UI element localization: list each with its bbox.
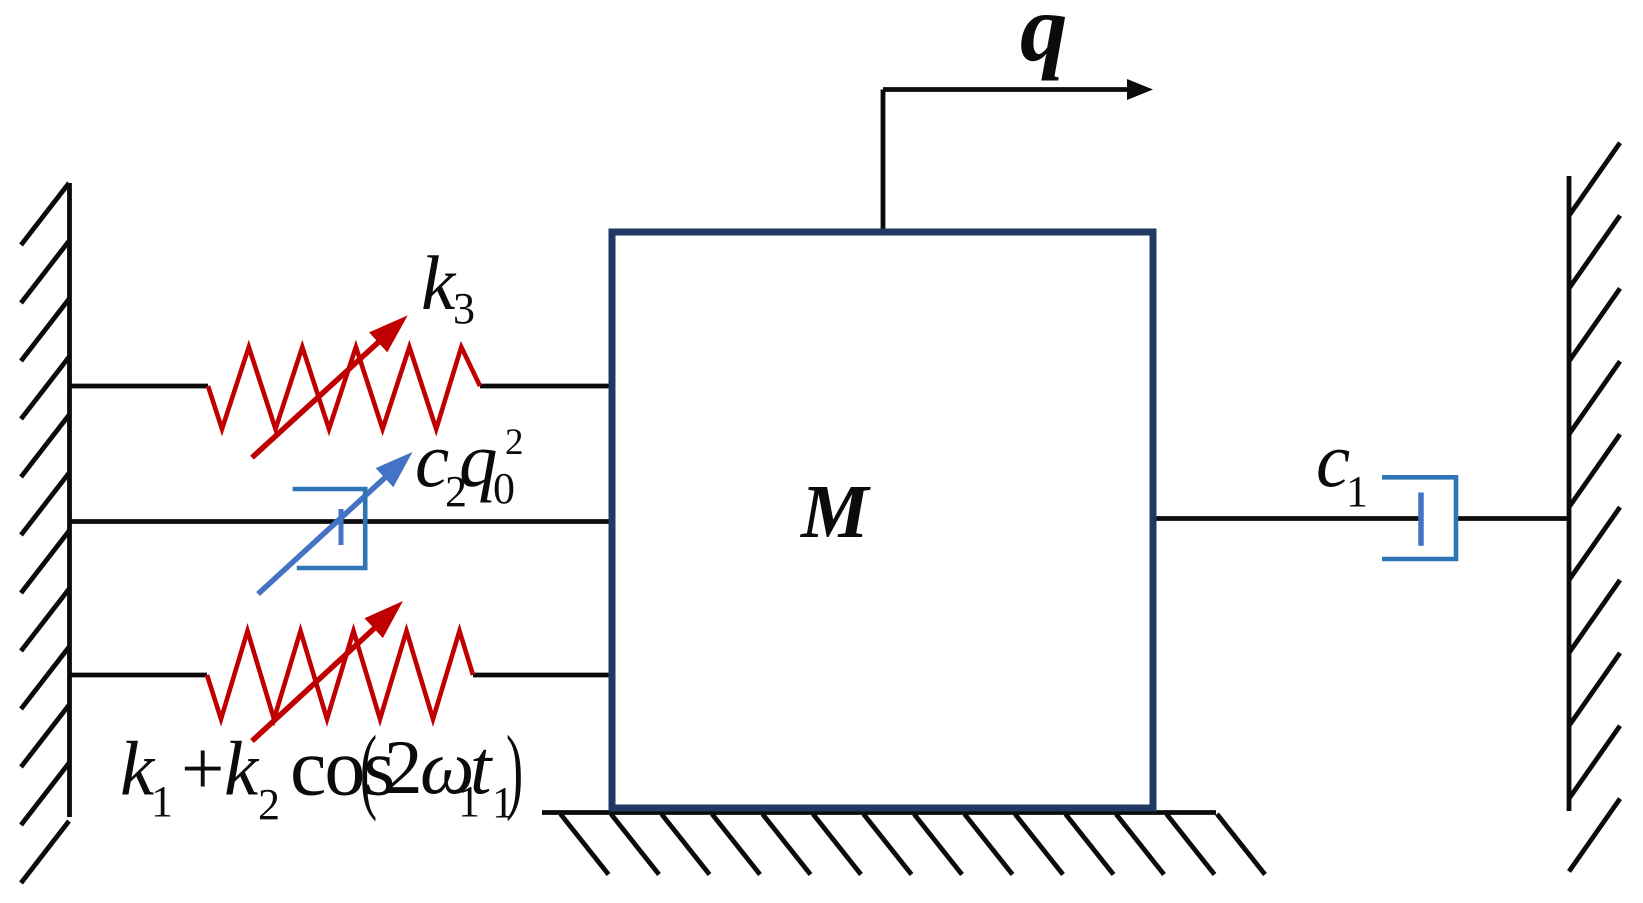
svg-text:): ) <box>506 716 523 822</box>
svg-text:q: q <box>459 417 498 503</box>
svg-text:2: 2 <box>505 422 524 463</box>
svg-text:(: ( <box>360 716 377 822</box>
svg-text:+: + <box>181 726 224 812</box>
svg-text:t: t <box>470 724 493 810</box>
svg-text:M: M <box>800 470 871 554</box>
svg-text:1: 1 <box>151 777 173 826</box>
svg-text:0: 0 <box>493 464 515 513</box>
svg-text:2: 2 <box>384 724 423 810</box>
svg-text:2: 2 <box>258 780 280 829</box>
svg-text:cos: cos <box>290 722 393 813</box>
svg-text:3: 3 <box>453 284 475 333</box>
svg-text:k: k <box>421 240 457 326</box>
svg-text:k: k <box>224 726 260 812</box>
svg-text:q: q <box>1020 0 1068 81</box>
svg-text:1: 1 <box>1346 467 1368 516</box>
